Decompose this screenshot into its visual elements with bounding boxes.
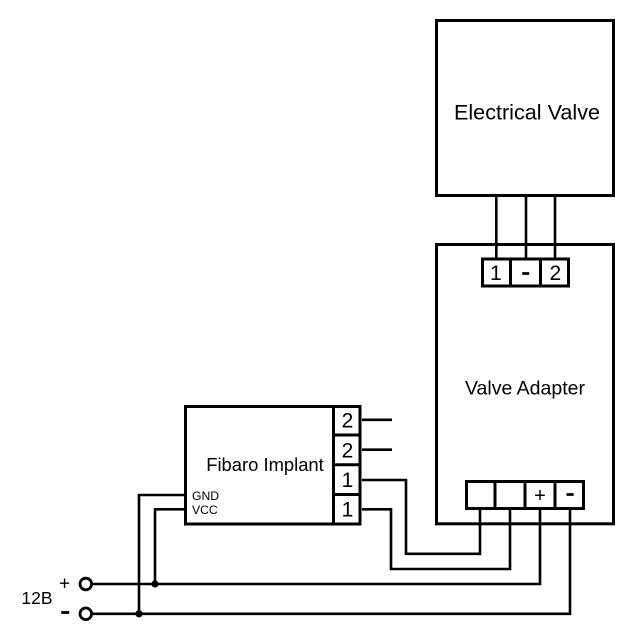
junction GND on negative rail: [135, 610, 142, 617]
svg-text:VCC: VCC: [192, 503, 218, 517]
svg-text:Valve Adapter: Valve Adapter: [465, 378, 585, 400]
wire Fibaro pin 1 (fourth) to adapter bottom terminal 2: [362, 508, 510, 569]
terminal column J1 on Fibaro Implant (2 2 1 1): [332, 405, 362, 525]
wire valve pin- to adapter terminal -: [525, 196, 528, 260]
wire valve pin1 to adapter terminal 1: [495, 196, 498, 260]
terminal 12B + (circle): [80, 578, 92, 590]
svg-text:1: 1: [342, 469, 354, 492]
svg-text:1: 1: [342, 499, 354, 522]
svg-text:GND: GND: [192, 489, 219, 503]
block U1 Fibaro Implant: [186, 407, 361, 525]
svg-text:2: 2: [342, 410, 354, 433]
block U2 Electrical Valve: [437, 21, 614, 196]
wire negative rail from 12B - to adapter - terminal: [92, 508, 570, 614]
wire GND from Fibaro to negative rail: [139, 495, 185, 614]
svg-text:2: 2: [342, 440, 354, 463]
svg-text:Electrical Valve: Electrical Valve: [454, 100, 600, 125]
wire Fibaro pin 1 (third) to adapter bottom terminal 1: [362, 480, 480, 554]
wire stub from Fibaro pin 2 (second): [362, 448, 392, 451]
wire VCC from Fibaro to positive rail: [155, 509, 185, 584]
svg-text:12B: 12B: [21, 588, 52, 608]
svg-text:1: 1: [490, 262, 502, 285]
wire valve pin2 to adapter terminal 2: [554, 196, 557, 260]
svg-text:2: 2: [549, 262, 561, 285]
block U3 Valve Adapter: [437, 245, 614, 524]
junction VCC on positive rail: [151, 580, 158, 587]
wire stub from Fibaro pin 2 (top): [362, 418, 392, 421]
svg-text:+: +: [534, 485, 546, 507]
label - polarity: [61, 611, 69, 614]
terminal block J3 (valve adapter bottom: blank blank + -): [467, 480, 584, 510]
svg-text:Fibaro Implant: Fibaro Implant: [206, 454, 324, 475]
terminal block J2 (valve adapter top: 1 - 2): [483, 258, 569, 288]
svg-text:+: +: [59, 574, 70, 595]
terminal 12B - (circle): [80, 608, 92, 620]
wire positive rail from 12B + to adapter + terminal: [92, 508, 540, 584]
